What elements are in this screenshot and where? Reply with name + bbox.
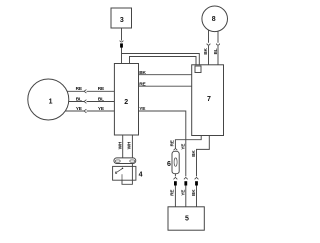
svg-text:6: 6 <box>167 161 171 168</box>
wire YE box2 down to box5 <box>139 111 186 207</box>
svg-text:RE: RE <box>76 86 83 92</box>
switch 4 contact glyph <box>115 167 123 180</box>
wire from box3 down to box2 (upper part) <box>121 28 123 64</box>
connector tent above fuse6 <box>174 148 178 150</box>
connector cup on lamp8 right wire <box>216 44 219 46</box>
motor 1 (circle) <box>28 79 69 120</box>
svg-text:BK: BK <box>203 48 209 55</box>
switch 4 body <box>113 166 136 180</box>
wire BK box7 to box5 <box>197 136 210 207</box>
fuse 6 body <box>172 151 179 173</box>
connector chevron on RE wire row1 <box>84 90 86 94</box>
connector housing of switch 4 <box>114 158 136 164</box>
connector tent on wire1 above box5 <box>174 177 178 179</box>
wire branch from box3 wire to box7 pin (horizontal y=53.5) <box>122 54 200 67</box>
svg-text:YE: YE <box>181 189 187 196</box>
connector tent on wire3 above box5 <box>195 177 199 179</box>
svg-text:RE: RE <box>98 86 105 92</box>
lamp 8 (circle) <box>202 6 228 32</box>
box 3 <box>111 8 132 28</box>
wire WH left box2 to switch4 <box>122 135 124 158</box>
svg-text:BL: BL <box>98 96 104 102</box>
svg-text:YE: YE <box>76 106 83 112</box>
connector pin block on box3 wire <box>120 43 123 47</box>
connector chevron on YE wire row3 <box>84 109 86 113</box>
svg-text:1: 1 <box>49 98 53 105</box>
box 7 (CDI unit) <box>192 65 224 136</box>
wire WH right box2 to switch4 <box>131 135 133 158</box>
svg-text:BK: BK <box>191 150 197 157</box>
wire RE box2 to box7 <box>139 85 192 87</box>
svg-text:BL: BL <box>213 48 219 54</box>
svg-text:7: 7 <box>207 96 211 103</box>
svg-text:WH: WH <box>127 141 133 149</box>
svg-text:4: 4 <box>139 172 143 179</box>
wire from lamp8 right lead to box7 <box>217 20 219 65</box>
wire RE box7 through fuse6 to box5 <box>175 136 201 207</box>
fuse 6 inner slot <box>174 158 177 166</box>
connector pin block wire3 <box>195 181 198 185</box>
housing slot right <box>130 160 135 162</box>
wire BL motor1 to box2 <box>55 101 114 103</box>
wire RE motor1 to box2 <box>55 90 114 92</box>
svg-text:YE: YE <box>139 106 146 112</box>
svg-text:YE: YE <box>98 106 105 112</box>
connector chevron on BL wire row2 <box>84 100 86 104</box>
wire BK box2 to box7 <box>139 74 192 76</box>
svg-text:RE: RE <box>170 139 176 146</box>
svg-text:5: 5 <box>185 216 189 223</box>
wire loop from switch4 bottom <box>122 164 132 185</box>
svg-text:YE: YE <box>181 143 187 150</box>
connector cup on lamp8 left wire <box>207 44 210 46</box>
wire from box2 top to box7 pin (horizontal y=56.5) <box>130 57 197 67</box>
connector pin block wire2 <box>184 181 187 185</box>
svg-text:BL: BL <box>76 96 82 102</box>
svg-text:RE: RE <box>170 189 176 196</box>
connector tent on wire2 above box5 <box>184 177 188 179</box>
svg-text:3: 3 <box>120 17 124 24</box>
housing slot left <box>115 160 120 162</box>
wire YE motor1 to box2 <box>55 110 114 112</box>
connector pin block wire1 <box>174 181 177 185</box>
svg-text:BK: BK <box>191 189 197 196</box>
svg-text:RE: RE <box>139 81 146 87</box>
pin box on box7 <box>195 66 201 73</box>
svg-text:8: 8 <box>212 16 216 23</box>
svg-text:WH: WH <box>117 141 123 149</box>
box 5 (battery/unit) <box>168 207 204 230</box>
connector cup on box3 wire <box>120 40 123 42</box>
box 2 (control unit) <box>114 64 138 136</box>
svg-text:BK: BK <box>139 70 146 76</box>
wire from lamp8 left lead to box7 <box>208 20 210 65</box>
svg-text:2: 2 <box>124 99 128 106</box>
